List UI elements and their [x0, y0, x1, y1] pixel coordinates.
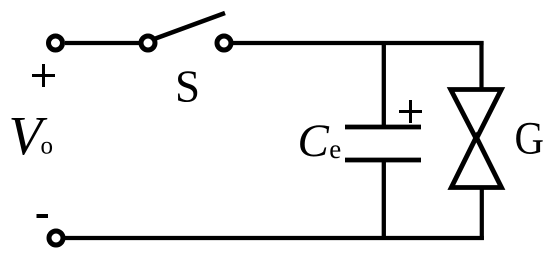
svg-text:C: C — [298, 115, 330, 167]
switch S pivot circle — [141, 36, 155, 50]
label + (capacitor polarity) — [399, 100, 422, 123]
capacitor Ce top plate — [345, 125, 421, 130]
terminal node - (bottom-left open circle) — [49, 231, 63, 245]
wire: gap G to bottom wire — [480, 186, 484, 240]
switch S throw circle — [217, 36, 231, 50]
wire: top-left terminal to switch pivot — [65, 41, 139, 45]
wire: capacitor branch from bottom plate down to bottom wire — [382, 160, 386, 240]
spark gap G top triangle — [451, 90, 502, 140]
wire: capacitor branch from top wire down to top plate — [382, 41, 386, 127]
svg-text:S: S — [175, 62, 200, 112]
wire: top horizontal from switch to right branch — [233, 41, 484, 45]
label + (source polarity) — [32, 64, 55, 87]
switch S blade (open) — [156, 13, 226, 39]
svg-text:o: o — [41, 133, 54, 160]
capacitor Ce bottom plate — [345, 158, 421, 163]
svg-text:G: G — [515, 113, 545, 165]
terminal node + (top-left open circle) — [49, 36, 63, 50]
spark gap G bottom triangle — [451, 137, 501, 188]
svg-text:e: e — [329, 134, 341, 164]
label - (source polarity) — [37, 214, 49, 218]
wire: bottom horizontal — [64, 236, 484, 240]
wire: right branch drop from top wire to gap G — [479, 41, 483, 92]
